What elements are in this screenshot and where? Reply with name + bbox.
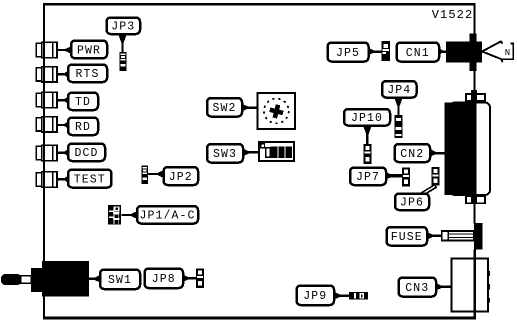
leader JP7 — [385, 171, 403, 180]
svg-text:N: N — [505, 48, 512, 58]
svg-text:CN3: CN3 — [405, 282, 429, 295]
label JP5 — [328, 43, 369, 62]
label JP3 — [107, 18, 141, 35]
leader FUSE — [426, 231, 443, 240]
label RTS — [68, 65, 107, 83]
DCD LED — [36, 145, 57, 160]
board right edge segment above CN1 — [474, 3, 476, 34]
board outline left edge — [43, 3, 45, 318]
board outline bottom edge — [43, 317, 476, 320]
fuse F1 — [442, 223, 483, 250]
jumper block JP7 — [402, 168, 410, 187]
label DCD — [68, 144, 105, 162]
svg-text:TEST: TEST — [74, 173, 106, 186]
svg-text:TD: TD — [75, 96, 91, 109]
svg-text:JP3: JP3 — [111, 21, 135, 34]
svg-text:JP8: JP8 — [152, 273, 176, 286]
label PWR — [71, 41, 107, 59]
svg-text:JP5: JP5 — [336, 47, 360, 60]
TEST LED — [36, 172, 57, 187]
leader CN2 — [429, 149, 445, 158]
label TEST — [68, 170, 111, 188]
label JP9 — [297, 286, 335, 306]
label RD — [68, 118, 98, 136]
svg-text:CN2: CN2 — [400, 148, 424, 161]
svg-text:DCD: DCD — [74, 147, 98, 160]
TD LED — [36, 92, 57, 107]
svg-text:RTS: RTS — [75, 68, 99, 81]
svg-text:JP7: JP7 — [356, 171, 380, 184]
leader JP2 — [148, 170, 165, 179]
label CN3 — [399, 278, 437, 297]
label JP8 — [145, 269, 184, 289]
jumper block JP6 — [432, 167, 440, 186]
jumper block JP5 — [382, 41, 391, 61]
power inlet arrow N — [482, 41, 513, 62]
leader JP4 — [394, 96, 404, 116]
jumper block JP2 — [142, 166, 149, 185]
leader JP6 — [422, 186, 437, 195]
label JP2 — [164, 167, 199, 185]
svg-text:JP1/A-C: JP1/A-C — [139, 210, 195, 223]
jumper block JP1/A-C — [108, 205, 121, 225]
CN2 top mounting tab — [466, 90, 485, 104]
label JP1/A-C — [137, 206, 198, 224]
svg-text:JP6: JP6 — [400, 197, 424, 210]
svg-text:FUSE: FUSE — [391, 231, 423, 244]
leader CN1 — [438, 47, 447, 56]
leader JP8 — [182, 274, 197, 283]
jumper block JP10 — [364, 144, 372, 164]
leader JP3 — [118, 33, 128, 53]
leader TD — [57, 96, 69, 105]
label FUSE — [387, 227, 428, 246]
svg-text:JP4: JP4 — [387, 84, 411, 97]
svg-text:SW3: SW3 — [213, 148, 237, 161]
svg-text:JP10: JP10 — [351, 112, 383, 125]
svg-text:SW1: SW1 — [108, 274, 132, 287]
label JP6 — [395, 194, 429, 211]
label SW2 — [207, 98, 242, 117]
svg-text:V1522: V1522 — [432, 8, 474, 22]
board outline top edge — [43, 3, 476, 5]
connector CN2 body — [445, 103, 477, 196]
RTS LED — [36, 67, 57, 82]
jumper block JP4 — [395, 115, 403, 138]
board right edge segment below fuse through CN3 — [474, 250, 476, 319]
RD LED — [36, 117, 57, 132]
leader RTS — [57, 70, 69, 79]
connector CN1 — [446, 34, 482, 72]
svg-text:JP2: JP2 — [169, 171, 193, 184]
label JP10 — [344, 109, 390, 126]
leader TEST — [57, 175, 69, 184]
CN2 bottom mounting tab — [466, 194, 485, 204]
jumper block JP9 — [349, 292, 368, 300]
label SW3 — [207, 144, 243, 163]
svg-text:JP9: JP9 — [303, 290, 327, 303]
leader PWR — [57, 46, 72, 55]
leader JP1/A-C — [121, 211, 138, 220]
leader JP5 — [367, 47, 382, 56]
toggle switch SW1 — [1, 261, 89, 297]
PWR LED — [36, 42, 57, 57]
part number V1522 — [432, 8, 474, 22]
board right edge segment CN2 to fuse — [474, 204, 476, 224]
leader CN3 — [435, 282, 452, 291]
board right edge segment CN1 to CN2 — [474, 71, 476, 92]
DIP switch SW3 — [259, 142, 294, 161]
leader SW1 — [89, 274, 102, 283]
jumper block JP3 — [120, 52, 127, 71]
label CN1 — [397, 43, 440, 62]
connector CN3 — [452, 259, 491, 312]
leader JP10 — [363, 124, 373, 145]
leader RD — [57, 121, 69, 130]
rotary switch SW2 — [258, 93, 296, 129]
svg-text:RD: RD — [75, 121, 91, 134]
label TD — [68, 93, 98, 111]
label SW1 — [100, 270, 140, 290]
leader JP9 — [333, 291, 350, 300]
jumper block JP8 — [196, 269, 204, 289]
label CN2 — [395, 144, 431, 162]
svg-text:SW2: SW2 — [212, 102, 236, 115]
leader SW2 — [241, 103, 259, 112]
leader DCD — [57, 148, 69, 157]
connector CN2 shell — [450, 103, 490, 196]
svg-text:PWR: PWR — [77, 44, 101, 57]
svg-text:CN1: CN1 — [406, 47, 430, 60]
label JP4 — [382, 81, 417, 98]
label JP7 — [350, 168, 386, 186]
leader SW3 — [242, 148, 260, 157]
